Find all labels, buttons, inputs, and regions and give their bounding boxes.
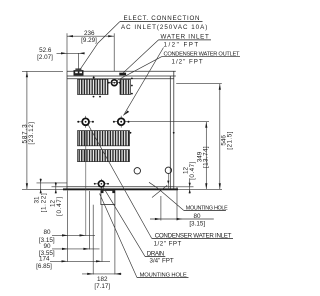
dim 349 line <box>205 122 207 190</box>
leader cond outlet <box>116 57 161 81</box>
dim 182 line <box>82 273 122 275</box>
dim 236 ext lines <box>66 33 68 71</box>
svg-text:3/4" FPT: 3/4" FPT <box>150 257 174 264</box>
svg-text:[1.22]: [1.22] <box>40 193 47 213</box>
587.3 arrows <box>26 71 28 77</box>
leader cond inlet <box>88 125 151 238</box>
31 arrows <box>40 179 42 183</box>
dim 349 ext <box>130 121 210 123</box>
dim 80R exts <box>160 196 162 221</box>
dim 31 ext <box>37 182 68 184</box>
svg-text:182: 182 <box>97 276 108 283</box>
svg-text:AC INLET(250VAC 10A): AC INLET(250VAC 10A) <box>121 24 208 31</box>
leader mounting bottom <box>100 194 137 278</box>
unit left edge <box>66 71 68 190</box>
inner base line <box>67 186 174 188</box>
dim 546 line <box>219 84 221 190</box>
svg-text:1/2" FPT: 1/2" FPT <box>164 42 200 49</box>
dim 80L line <box>52 234 95 236</box>
dim 90 line <box>52 248 100 250</box>
12R arrows <box>189 183 191 187</box>
leader arrowhead to C2 <box>123 111 129 116</box>
leader elect <box>80 22 120 71</box>
leader cross <box>152 185 167 197</box>
dim 80R line <box>150 218 214 220</box>
dim 52.6 line <box>57 52 85 54</box>
mounting hole circle C3 <box>134 168 140 174</box>
svg-text:90: 90 <box>43 243 51 250</box>
182 arrows <box>87 273 93 275</box>
right seam line <box>169 76 171 190</box>
fitting C1 <box>77 116 94 128</box>
svg-text:[2.07]: [2.07] <box>37 54 53 61</box>
ext line through bands <box>85 131 87 236</box>
dim 546 exts <box>176 83 222 85</box>
svg-text:[21.5]: [21.5] <box>226 131 233 150</box>
dim arrowheads <box>26 35 221 275</box>
dim 52.6 ext <box>78 53 80 70</box>
grille A <box>78 79 109 94</box>
unit bottom thick edge <box>63 188 178 190</box>
dim 12R exts <box>174 186 194 188</box>
left ext column <box>67 191 69 262</box>
fitting C2 <box>113 116 130 128</box>
svg-text:[0.47]: [0.47] <box>56 196 63 216</box>
52.6 arrows <box>61 52 67 54</box>
dim 12R line <box>189 179 191 194</box>
svg-text:80: 80 <box>193 213 201 220</box>
screw dots below grille A <box>93 77 101 98</box>
C4 ext arrow <box>167 181 169 185</box>
svg-text:1/2" FPT: 1/2" FPT <box>154 241 182 248</box>
svg-text:[9.29]: [9.29] <box>81 37 97 44</box>
dim 587.3 exts <box>22 70 63 72</box>
dim 587.3 line <box>26 71 28 189</box>
svg-text:[0.47]: [0.47] <box>189 161 196 180</box>
svg-text:174: 174 <box>39 255 50 262</box>
louver band 1 <box>78 131 130 146</box>
90 arrows <box>62 248 68 250</box>
236 arrows <box>67 35 73 37</box>
unit right edge <box>173 71 175 190</box>
svg-text:[6.85]: [6.85] <box>36 263 52 270</box>
svg-text:[23.12]: [23.12] <box>28 121 35 144</box>
12L arrows <box>55 183 57 187</box>
drain box <box>101 191 115 205</box>
80R arrows <box>155 218 161 220</box>
elect connector <box>74 68 84 75</box>
leader mounting right <box>149 182 184 210</box>
leader drain <box>103 187 145 256</box>
svg-text:80: 80 <box>43 229 51 236</box>
dim 12L ext <box>52 186 68 188</box>
dim 31 line <box>40 179 42 194</box>
dim 12L line <box>55 182 57 194</box>
svg-text:1/2" FPT: 1/2" FPT <box>172 59 204 66</box>
svg-text:WATER INLET: WATER INLET <box>161 34 210 41</box>
dim 174 ext <box>101 205 103 262</box>
dim 182 exts <box>92 205 94 275</box>
louver band 2 <box>78 150 130 162</box>
174 arrows <box>62 260 68 262</box>
unit top edge <box>67 70 176 72</box>
svg-text:[7.17]: [7.17] <box>94 283 110 290</box>
top panel bottom <box>67 75 176 77</box>
leader water inlet <box>123 40 159 73</box>
349 arrows <box>205 122 207 128</box>
drain fitting F2 <box>94 179 109 189</box>
screw dot column <box>130 78 175 134</box>
grille B <box>120 80 131 95</box>
svg-text:[13.74]: [13.74] <box>203 146 210 168</box>
right base lip <box>176 187 178 191</box>
water inlet flange F1 <box>108 80 121 86</box>
dim 236 line <box>67 35 114 37</box>
mounting hole circle C4 <box>165 167 171 173</box>
svg-text:236: 236 <box>84 30 95 37</box>
leader to C2 <box>123 48 163 116</box>
condenser water outlet stub <box>119 73 126 76</box>
546 arrows <box>219 84 221 90</box>
80L arrows <box>62 234 68 236</box>
C4 ext line <box>167 174 169 190</box>
svg-text:[3.15]: [3.15] <box>189 220 205 227</box>
inner top line <box>67 78 174 80</box>
dim 90 ext <box>88 191 90 250</box>
svg-text:ELECT. CONNECTION: ELECT. CONNECTION <box>124 15 201 22</box>
dim 174 line <box>50 260 110 262</box>
